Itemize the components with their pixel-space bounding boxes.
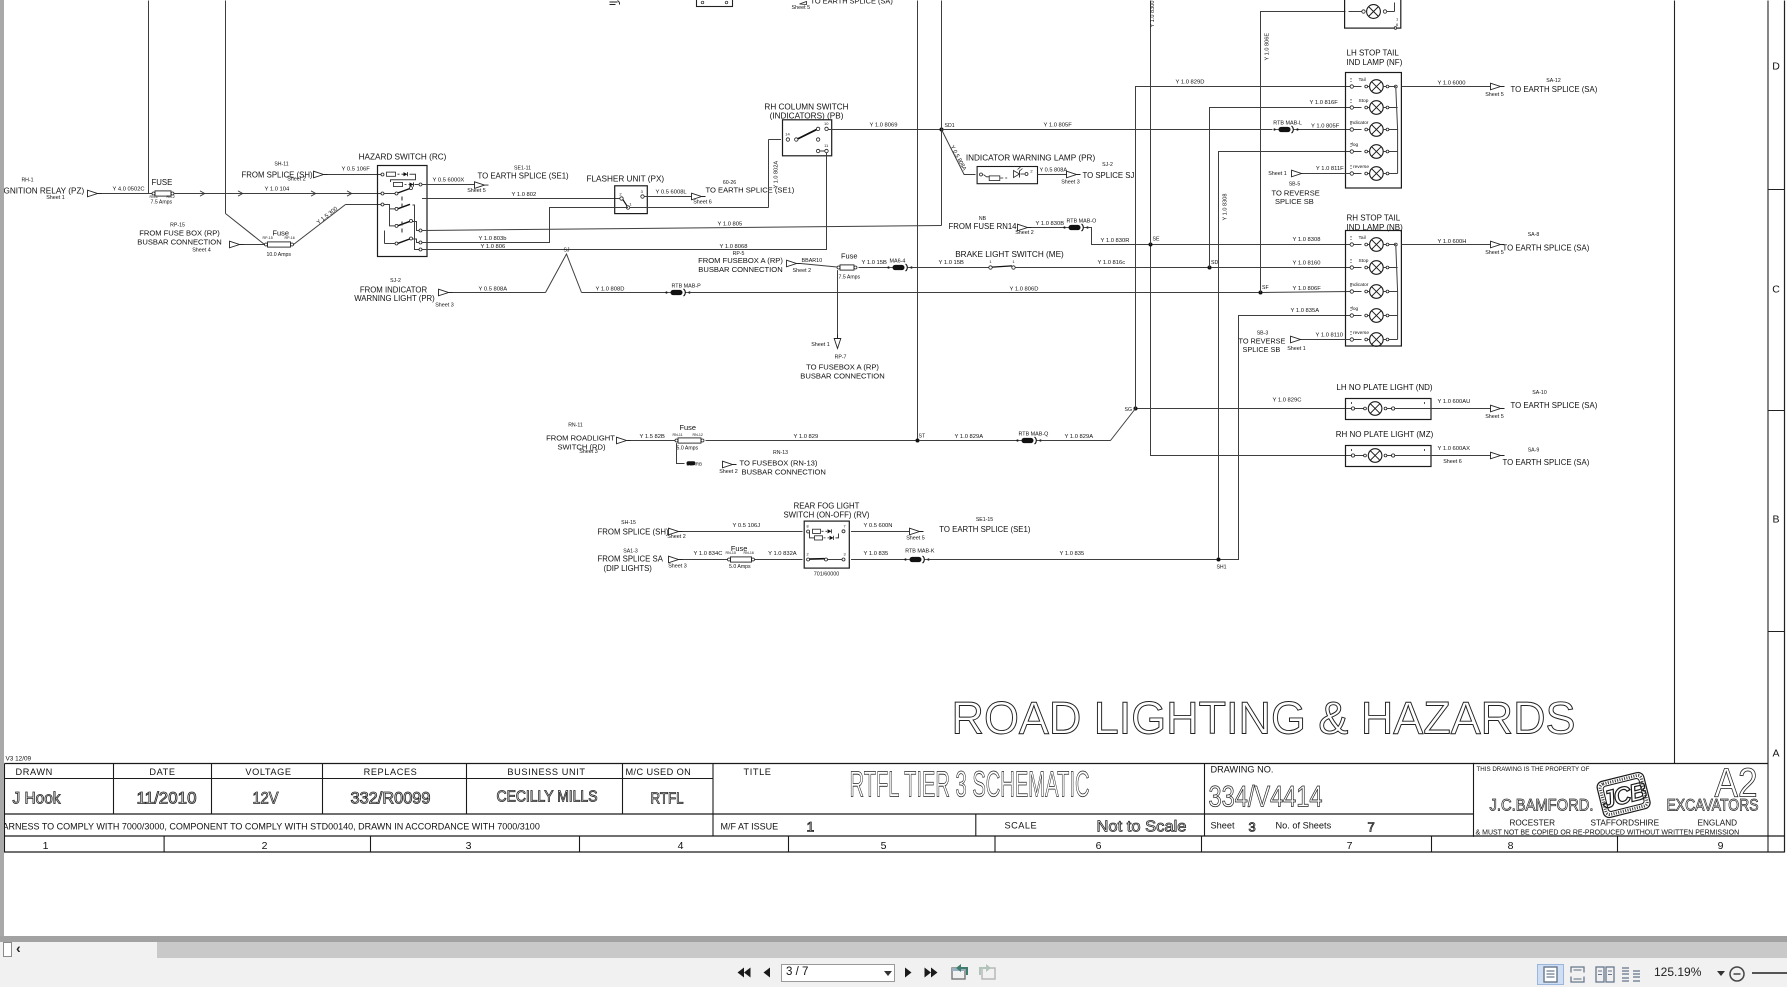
svg-text:RTB MAB-Q: RTB MAB-Q [1019,432,1049,438]
earth splice SE1 second label [693,180,795,206]
svg-text:ARNESS TO COMPLY WITH 7000: ARNESS TO COMPLY WITH 7000/3000, COMPONE… [3,822,540,832]
svg-text:5.0 Amps: 5.0 Amps [729,564,751,570]
svg-text:BUSBAR CONNECTION: BUSBAR CONNECTION [742,467,826,476]
svg-text:TITLE: TITLE [744,767,772,777]
svg-text:(INDICATORS) (PB): (INDICATORS) (PB) [770,112,844,121]
arrow RH no plate earth splice [1491,452,1505,459]
svg-text:M/C USED ON: M/C USED ON [626,767,692,777]
svg-text:FROM FUSE RN14: FROM FUSE RN14 [949,222,1018,231]
indicator warning lamp PR internals [980,167,1034,181]
wire Y 0.5 6000X to earth splice SE1 [422,178,475,185]
node SG [1125,407,1138,413]
svg-text:Y 1.0 829C: Y 1.0 829C [1273,397,1302,403]
svg-text:5: 5 [881,840,887,852]
toolbar continuous-facing layout icon [1621,966,1641,983]
fog switch internals [806,525,845,562]
wire Y 0.5 808A node SD1 to indicator warning lamp [942,130,976,175]
svg-text:Sheet 1: Sheet 1 [46,195,65,201]
svg-text:7: 7 [1347,840,1353,852]
svg-text:6: 6 [1396,22,1399,27]
svg-text:REAR FOG LIGHT: REAR FOG LIGHT [794,502,860,511]
svg-text:Sheet 2: Sheet 2 [287,177,306,183]
svg-text:Y 1.0 600AX: Y 1.0 600AX [1438,446,1471,452]
svg-text:2: 2 [619,192,622,197]
svg-text:reverse: reverse [1353,164,1369,170]
svg-text:TO EARTH SPLICE (SA): TO EARTH SPLICE (SA) [1503,243,1590,252]
wire Y 1.0 8160 node SD to RH stop pin [1212,260,1351,267]
indicator warning lamp PR box [977,167,1037,184]
svg-text:RTFL: RTFL [651,791,684,808]
svg-text:TO EARTH SPLICE (SA): TO EARTH SPLICE (SA) [1511,85,1598,94]
svg-text:11: 11 [824,143,829,148]
svg-text:2: 2 [262,840,268,852]
toolbar prev-page button [762,967,771,978]
svg-text:Fuse: Fuse [841,252,857,261]
svg-text:TO FUSEBOX A (RP): TO FUSEBOX A (RP) [806,363,879,372]
svg-text:3: 3 [641,189,644,194]
svg-text:Y 1.0 832A: Y 1.0 832A [768,551,797,557]
title block frame [1,763,1785,852]
wire Y 1.0 832A fuse to fog switch [755,551,803,559]
top cut-off lamp box [1345,0,1401,29]
fuse box RP feed label [137,223,221,254]
svg-text:Y 1.0 835: Y 1.0 835 [1060,551,1085,557]
svg-text:RTFL TIER 3 SCHEMATIC: RTFL TIER 3 SCHEMATIC [850,764,1090,805]
connector RTB MAB-K [904,549,934,564]
svg-text:TO EARTH SPLICE (SE1): TO EARTH SPLICE (SE1) [478,172,570,181]
svg-text:TO EARTH SPLICE (SE1): TO EARTH SPLICE (SE1) [939,525,1031,534]
svg-text:RTB MAB-K: RTB MAB-K [905,549,935,555]
fuse F4 7.5 Amps brake [837,252,861,281]
svg-text:FUSE: FUSE [152,178,173,187]
RH tail earth splice label [1485,232,1589,256]
svg-text:Y 1.0 104: Y 1.0 104 [265,187,290,193]
zone divider D/C [1768,189,1785,191]
vertical wire to top at x=148 [148,1,150,194]
svg-text:RN-16: RN-16 [744,551,754,555]
svg-text:BRAKE LIGHT SWITCH (ME): BRAKE LIGHT SWITCH (ME) [955,250,1064,259]
svg-text:Y 1.0 8308: Y 1.0 8308 [1293,237,1321,243]
bottom gray separator band [0,936,1787,942]
fusebox A RP feed label [698,251,811,274]
wire Y 1.0 805 hazard to node SD1 [422,221,942,230]
svg-text:Sheet 5: Sheet 5 [1485,250,1504,256]
toolbar single-page layout icon (active) [1537,964,1564,985]
wire Y 1.0 802 to flasher unit [422,192,620,199]
RH column switch PB internals [785,121,829,153]
svg-text:Sheet 5: Sheet 5 [792,5,811,11]
wire Y 1.0 816c brake switch to node SD [1015,260,1207,268]
svg-text:Stop: Stop [1359,98,1369,104]
page box dropdown caret [884,971,892,976]
svg-text:ENGLAND: ENGLAND [1698,819,1738,828]
svg-text:Y 1.0 830B: Y 1.0 830B [1036,221,1065,227]
svg-text:BUSINESS UNIT: BUSINESS UNIT [507,767,585,777]
arrow LH no plate earth splice [1491,405,1505,412]
svg-text:Y 0.5 600N: Y 0.5 600N [864,523,893,529]
vertical wire x=1209 LH stop feed [1210,108,1351,268]
wire Y 1.0 829C node SG to LH no plate light [1138,397,1352,408]
svg-text:1: 1 [807,819,815,835]
wire Y 1.0 104 to hazard switch [174,187,381,194]
wire Y 0.5 6008L to earth splice SE1 [644,189,691,196]
svg-text:Y 1.0 806E: Y 1.0 806E [1265,33,1271,61]
svg-text:INDICATOR WARNING LAMP (PR): INDICATOR WARNING LAMP (PR) [966,154,1096,163]
svg-text:Tail: Tail [1359,235,1366,241]
svg-text:TO EARTH SPLICE (SA): TO EARTH SPLICE (SA) [1511,401,1598,410]
svg-text:Y 1.0 8308: Y 1.0 8308 [1223,194,1229,221]
border column numbers [43,840,1724,852]
fusebox A busbar label [800,342,884,380]
svg-text:ST: ST [919,434,926,440]
reverse splice SB-3 label [1239,331,1286,355]
arrow from indicator warning light [439,289,453,296]
arrow reverse splice SB-3 [1287,333,1350,353]
svg-text:FROM SPLICE (SH): FROM SPLICE (SH) [598,528,669,537]
wire diagonal to fuse F2 [226,214,265,245]
wire Y 0.5 808A to splice SJ [453,286,546,292]
svg-text:FROM FUSE BOX (RP): FROM FUSE BOX (RP) [139,229,220,238]
arrow to earth splice SE1 fog [910,528,924,535]
svg-text:J.C.BAMFORD.: J.C.BAMFORD. [1490,796,1594,815]
wire Y 1.0 803b hazard to flasher pin 1 [422,208,615,243]
wire to fusebox A busbar down [837,270,839,338]
rear fog light switch RV box [804,521,849,568]
svg-text:Sheet 1: Sheet 1 [1268,171,1287,177]
svg-text:BUSBAR CONNECTION: BUSBAR CONNECTION [800,371,884,380]
fuse F6 5.0 Amps dip [726,544,755,570]
svg-text:Y 0.5 106J: Y 0.5 106J [733,523,761,529]
svg-text:Y 1.0 8068: Y 1.0 8068 [720,244,748,250]
top partial component box [697,0,733,7]
svg-text:J Hook: J Hook [13,789,61,808]
svg-text:RH NO PLATE LIGHT (MZ): RH NO PLATE LIGHT (MZ) [1336,430,1434,439]
svg-text:RP-15: RP-15 [263,236,273,240]
connector RTB MAB-L [1273,121,1302,134]
wire diagonal node SG to roadlight wire [1111,409,1136,441]
svg-text:fog: fog [1352,306,1359,312]
arrow from splice SH to fog switch [669,528,683,535]
svg-text:Y 1.5 82B: Y 1.5 82B [640,434,665,440]
svg-text:Y 1.0 805: Y 1.0 805 [718,221,743,227]
svg-text:& MUST NOT BE COPIED OR: & MUST NOT BE COPIED OR RE-PRODUCED WITH… [1476,830,1740,837]
svg-text:Y 1.0 808D: Y 1.0 808D [596,286,625,292]
node SF [1259,285,1269,295]
toolbar next-page button [904,967,913,978]
JCB logo [1596,771,1652,819]
svg-text:SH-15: SH-15 [621,520,636,526]
property block text [1476,766,1759,837]
svg-text:Y 1.0 806F: Y 1.0 806F [1293,286,1322,292]
svg-text:LH NO PLATE LIGHT (ND): LH NO PLATE LIGHT (ND) [1336,383,1433,392]
svg-text:RP-7: RP-7 [835,355,847,361]
arrow from fusebox A RP [787,260,801,267]
svg-text:B: B [1772,514,1779,526]
wire Y 1.0 805F node SD1 to LH indicator pin [942,123,1351,130]
svg-text:1: 1 [1012,259,1015,264]
LH stop tail ind lamp NF title [1347,49,1403,68]
svg-text:(DIP LIGHTS): (DIP LIGHTS) [604,564,653,573]
svg-text:FLASHER UNIT (PX): FLASHER UNIT (PX) [587,175,665,184]
svg-text:SA-12: SA-12 [1546,78,1561,84]
connector RTB MAB-O [1063,218,1096,231]
svg-text:FROM SPLICE SA: FROM SPLICE SA [598,555,664,564]
svg-text:SB-5: SB-5 [1289,182,1301,188]
wire Y 1.0 830R to node SE [1088,228,1149,245]
scrollbar left arrow [16,940,28,956]
LH tail earth splice label [1485,78,1597,98]
svg-text:7: 7 [1368,820,1375,835]
arrow to fusebox RN-13 [723,461,737,468]
wire Y 1.0 8308 node SE to RH tail pin [1153,237,1351,244]
svg-text:Sheet 3: Sheet 3 [579,449,598,455]
wire Y 1.0 808D splice SJ to connector MAB-P [582,286,667,292]
svg-text:Sheet 3: Sheet 3 [435,303,454,309]
svg-text:ROCESTER: ROCESTER [1510,819,1556,828]
rear fog light switch RV title [783,502,869,520]
wire Y 0.5 106F [328,167,382,175]
svg-text:Sheet 6: Sheet 6 [693,200,712,206]
svg-text:TO SPLICE SJ: TO SPLICE SJ [1083,171,1135,180]
svg-text:RN-2: RN-2 [167,195,175,199]
svg-text:6: 6 [1096,840,1102,852]
svg-text:D: D [1772,61,1780,73]
svg-text:FROM FUSEBOX A (RP): FROM FUSEBOX A (RP) [698,256,783,265]
RH no plate earth splice label [1443,448,1589,468]
svg-text:Y 1.0 8300: Y 1.0 8300 [1150,1,1156,28]
svg-text:VOLTAGE: VOLTAGE [245,767,291,777]
wire Y 0.5 806A warning lamp to splice SJ arrow [1038,168,1068,175]
wire Y 1.0 600AU LH no plate to earth splice [1395,399,1491,409]
svg-text:332/R0099: 332/R0099 [351,789,431,808]
svg-text:7.5 Amps: 7.5 Amps [839,274,861,280]
svg-text:Sheet 2: Sheet 2 [793,268,812,274]
fuse F2 10.0 Amps [263,229,295,259]
svg-text:12V: 12V [253,789,280,808]
svg-text:TO EARTH SPLICE (SE1): TO EARTH SPLICE (SE1) [706,186,795,195]
svg-text:MA6-4: MA6-4 [890,258,906,264]
svg-text:Sheet 2: Sheet 2 [719,469,738,475]
LH stop tail ind lamp NF box [1346,73,1402,189]
RH stop tail ind lamp NB box [1346,231,1402,347]
svg-text:5.0 Amps: 5.0 Amps [677,445,699,451]
wire Y 0.5 106J [683,523,803,532]
title block values [13,789,684,808]
svg-text:Stop: Stop [1359,258,1369,264]
RH no plate light MZ box [1346,446,1432,467]
top partial earth splice text [792,0,893,11]
svg-text:REPLACES: REPLACES [364,767,418,777]
svg-text:A2: A2 [1715,760,1758,806]
reverse splice SB-5 label [1272,182,1320,207]
svg-text:Y 1.0 802A: Y 1.0 802A [774,161,780,189]
svg-text:Sheet 1: Sheet 1 [1287,346,1306,352]
svg-text:Sheet 5: Sheet 5 [1485,92,1504,98]
svg-text:10: 10 [824,121,829,126]
wire Y 1.0 835 connector to node SH1 [929,551,1217,559]
indicator warning light feed label [354,278,454,309]
LH no plate light ND box [1346,399,1432,420]
svg-text:C: C [1772,284,1780,296]
svg-text:14: 14 [785,132,790,137]
svg-text:SJ-2: SJ-2 [390,278,401,284]
svg-text:Sheet 5: Sheet 5 [1485,414,1504,420]
svg-text:SA-8: SA-8 [1528,232,1540,238]
svg-text:SA-9: SA-9 [1528,448,1540,454]
earth splice SE1 fog label [906,517,1031,541]
svg-text:Y 1.0 600AU: Y 1.0 600AU [1438,399,1471,405]
svg-text:1: 1 [629,202,632,207]
svg-text:Y 1.0 835A: Y 1.0 835A [1291,308,1320,314]
zone divider B/A [1768,631,1785,633]
svg-text:DRAWING NO.: DRAWING NO. [1211,765,1274,775]
wire Y 1.0 802A flasher to column switch [615,140,781,208]
wire Y 1.0 835 fog switch to connector MAB-K [851,551,906,559]
arrow to earth splice SE1 [475,182,489,189]
wire Y 1.0 8068 column switch pin 11 to hazard switch [422,153,827,250]
arrow from fuse box RP [230,241,244,248]
svg-text:Y 0.5 808A: Y 0.5 808A [949,145,967,172]
flasher unit PX internals [619,189,644,209]
svg-text:9: 9 [1718,840,1724,852]
svg-text:2: 2 [1030,169,1033,174]
sheet number cell [1211,820,1375,835]
svg-text:Y 1.0 600H: Y 1.0 600H [1438,239,1467,245]
node SE [1149,237,1160,247]
svg-text:Y 1.0 829A: Y 1.0 829A [955,434,984,440]
svg-text:1: 1 [1396,17,1399,22]
arrow down to fusebox A [834,335,841,349]
wire arrow to fuse F2 [244,244,265,246]
wire Y 1.0 6000 LH tail to earth splice [1402,81,1491,87]
svg-text:Y 1.0 806D: Y 1.0 806D [1010,286,1039,292]
svg-text:Y 1.0 803b: Y 1.0 803b [479,236,507,242]
svg-text:Y 1.0 816F: Y 1.0 816F [1310,100,1339,106]
svg-text:LH STOP TAIL: LH STOP TAIL [1347,49,1400,58]
LH no plate earth splice label [1485,390,1597,420]
svg-text:1: 1 [989,259,992,264]
svg-text:Indicator: Indicator [1350,120,1369,126]
svg-text:RTB MAB-O: RTB MAB-O [1067,218,1097,224]
svg-text:SH-11: SH-11 [274,162,288,168]
svg-text:3: 3 [1249,820,1256,835]
arrow to earth splice SE1 second [692,193,706,200]
svg-text:Sheet 5: Sheet 5 [467,188,486,194]
svg-text:SG: SG [1125,407,1133,413]
arrow from splice SH [314,171,328,178]
svg-text:STAFFORDSHIRE: STAFFORDSHIRE [1591,819,1660,828]
svg-text:334/V4414: 334/V4414 [1209,781,1323,814]
svg-text:Sheet 6: Sheet 6 [1443,459,1462,465]
arrow to splice SJ [1067,171,1081,178]
top partial connector glyph [610,1,620,5]
svg-text:Y 1.0 805F: Y 1.0 805F [1044,123,1073,129]
svg-text:RTB MAB-P: RTB MAB-P [672,283,702,289]
svg-text:RTB MAB-L: RTB MAB-L [1273,121,1302,127]
svg-text:M/F AT ISSUE: M/F AT ISSUE [721,822,779,832]
wire Y 1.5 300 diagonal to hazard switch [294,205,382,245]
svg-text:701/60000: 701/60000 [814,572,839,578]
svg-text:WARNING LIGHT (PR): WARNING LIGHT (PR) [354,294,435,303]
svg-text:RN-15: RN-15 [726,551,736,555]
svg-text:Y 1.0 816c: Y 1.0 816c [1098,260,1126,266]
svg-text:RN-13: RN-13 [773,450,788,456]
wire Y 1.0 15B to brake switch [912,260,989,268]
svg-text:CECILLY MILLS: CECILLY MILLS [497,789,598,806]
svg-text:Y 4.0 0502C: Y 4.0 0502C [113,187,145,193]
vertical bus x=917 to top [917,1,919,441]
svg-text:2: 2 [806,553,808,557]
zoom dropdown caret [1717,971,1725,976]
svg-text:FROM INDICATOR: FROM INDICATOR [360,285,428,294]
svg-text:SF: SF [1262,285,1269,291]
scrollbar left stepper box [3,942,12,957]
arrow RH tail earth splice [1491,241,1505,248]
zoom out button [1729,966,1745,982]
wire node SE down to RH no plate light [1151,247,1352,456]
connector MA6-4 [887,258,912,271]
horizontal scrollbar track [0,942,1787,959]
node ST [916,434,926,443]
left window edge strip [0,0,4,936]
svg-text:Y 0.5 6008L: Y 0.5 6008L [656,189,688,195]
roadlight switch feed label [546,423,615,456]
arrow from fuse RN14 [1018,224,1032,231]
svg-text:4: 4 [678,840,684,852]
svg-text:Y 1.0 830R: Y 1.0 830R [1101,238,1130,244]
arrow from ignition relay [88,190,102,197]
wire Y 1.0 806F node SF to RH indicator pin [1263,286,1351,293]
scale cell [1005,819,1187,836]
svg-text:Sheet 3: Sheet 3 [668,564,687,570]
svg-text:A: A [1772,748,1779,760]
svg-text:No. of Sheets: No. of Sheets [1276,821,1332,831]
sheet inner right border line [1674,1,1676,764]
svg-text:Sheet 4: Sheet 4 [192,248,211,254]
svg-text:SE: SE [1153,237,1160,243]
wire Y 1.0 15B fuse to connector MA6-4 [859,260,889,268]
svg-text:SWITCH (ON-OFF) (RV): SWITCH (ON-OFF) (RV) [783,511,869,520]
svg-text:Y 1.0 829D: Y 1.0 829D [1176,80,1205,86]
svg-text:3: 3 [466,840,472,852]
hazard switch RC internals [381,172,422,251]
toolbar continuous layout icon [1570,966,1585,983]
wire Y 1.0 600AX RH no plate to earth splice [1395,446,1491,456]
node SD [1208,260,1219,270]
svg-text:Y 0.5 106F: Y 0.5 106F [342,167,371,173]
svg-text:Y 1.0 8110: Y 1.0 8110 [1316,333,1344,339]
node SD1 [940,123,955,132]
svg-text:Y 1.0 829A: Y 1.0 829A [1065,434,1094,440]
svg-text:Y 1.0 806: Y 1.0 806 [481,244,506,250]
splice SJ vee [546,248,582,293]
svg-text:Indicator: Indicator [1350,282,1369,288]
toolbar last-page button [924,967,939,978]
svg-text:RH STOP TAIL: RH STOP TAIL [1347,214,1401,223]
zoom percentage [1654,965,1701,979]
svg-text:7: 7 [843,525,845,529]
RH column switch PB title [764,103,848,121]
svg-text:SCALE: SCALE [1005,821,1038,831]
wire Y 1.0 8069 column switch to node SD1 [828,123,941,130]
wire Y 1.0 834C to fuse F6 [683,551,728,559]
svg-text:10.0 Amps: 10.0 Amps [267,252,292,258]
toolbar previous-view icon [951,963,969,982]
svg-text:Y 1.5 300: Y 1.5 300 [316,206,339,226]
svg-text:Y 1.0 835: Y 1.0 835 [864,551,889,557]
svg-text:Y 1.0 8160: Y 1.0 8160 [1293,260,1321,266]
earth splice SE1 label [467,166,569,195]
